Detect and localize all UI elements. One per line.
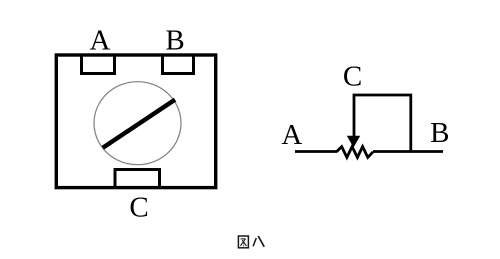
svg-text:A: A	[281, 119, 302, 151]
screwdriver slot	[103, 100, 175, 148]
rotor circle	[94, 82, 181, 165]
terminal C tab (bottom)	[115, 170, 160, 188]
caption char "tu" (figure) box	[238, 236, 248, 248]
resistor R zigzag	[337, 147, 374, 158]
svg-text:B: B	[165, 25, 184, 57]
wire B segment (schematic)	[373, 150, 443, 153]
caption char "ba" (eight)	[253, 236, 264, 247]
wire A segment (schematic)	[295, 150, 337, 153]
wiper arrowhead	[347, 136, 360, 148]
wiper bracket C: stem, top bar, right drop wire	[354, 95, 411, 152]
svg-text:A: A	[90, 25, 111, 57]
terminal B notch (top-right tab)	[163, 55, 194, 74]
svg-text:B: B	[430, 117, 449, 149]
svg-text:C: C	[129, 192, 148, 224]
potentiometer package outline (left diagram)	[56, 55, 215, 188]
terminal A notch (top-left tab)	[82, 55, 115, 74]
svg-text:C: C	[343, 61, 362, 93]
